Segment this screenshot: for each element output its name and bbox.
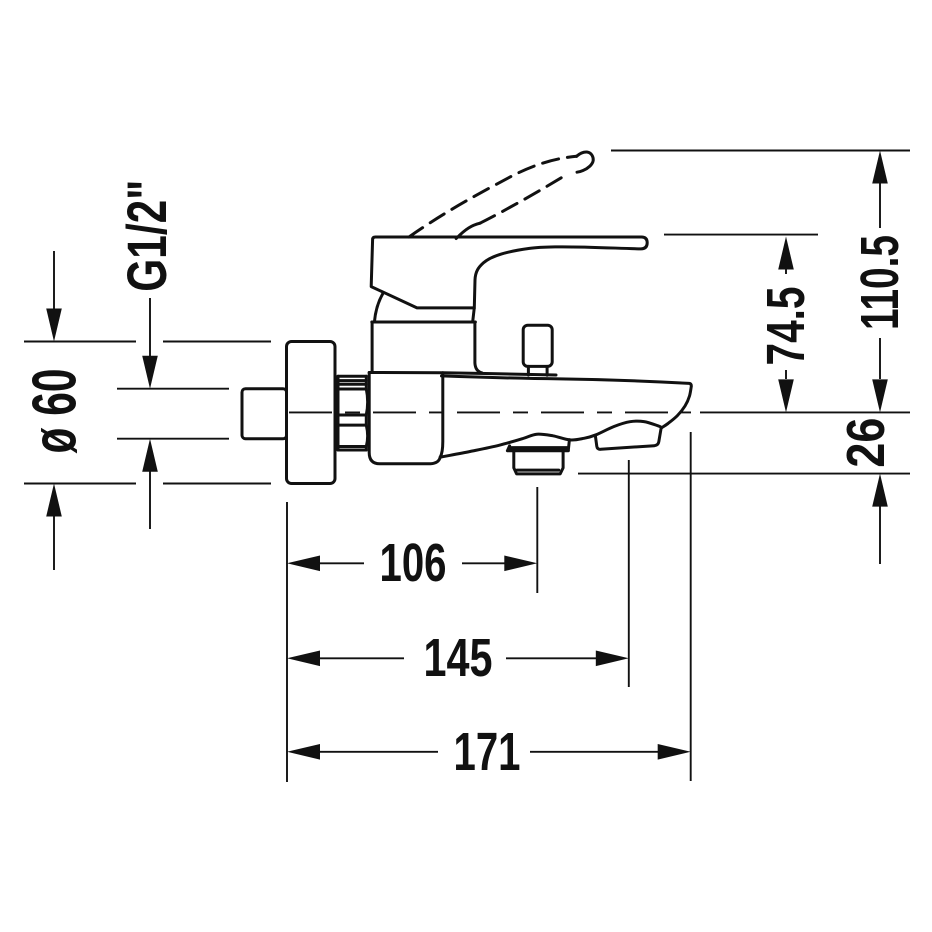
- spout tip extension line: [690, 432, 692, 781]
- handle lever (closed position): [371, 237, 647, 308]
- svg-text:171: 171: [454, 722, 521, 782]
- cartridge section: [372, 321, 476, 324]
- cartridge dome arc: [374, 294, 382, 322]
- reference line spout bottom (26): [578, 473, 910, 475]
- svg-text:G1/2": G1/2": [115, 180, 178, 292]
- svg-text:74.5: 74.5: [756, 287, 816, 366]
- 171 dimension: [287, 744, 320, 760]
- fitting bottom extension line: [117, 438, 229, 440]
- lever raised tip cap: [577, 152, 594, 172]
- wall plane extension line: [286, 502, 288, 782]
- svg-text:26: 26: [836, 418, 896, 468]
- lever raised base curve: [456, 223, 480, 238]
- aerator extension line: [536, 487, 538, 593]
- aerator lip: [507, 446, 568, 451]
- 26 dimension: [872, 474, 888, 507]
- 74.5 dimension: [778, 237, 794, 270]
- flange top extension line: [24, 341, 271, 343]
- reference line top (110.5): [611, 150, 910, 152]
- union nut: [338, 376, 368, 450]
- G1/2 dimension arrows: [149, 298, 151, 356]
- aerator inner line: [517, 469, 559, 472]
- lever in raised position (dashed) upper line: [409, 156, 577, 237]
- lever raised lower line (dashed): [480, 175, 566, 224]
- svg-text:106: 106: [380, 533, 447, 593]
- diverter knob stem: [528, 366, 547, 375]
- wall flange (escutcheon): [287, 342, 336, 484]
- dia 60 dimension arrows: [53, 251, 55, 310]
- wall supply square fitting: [242, 389, 287, 439]
- aerator right connector: [568, 440, 569, 451]
- reference line handle top (74.5): [664, 234, 818, 236]
- svg-text:ø 60: ø 60: [21, 369, 90, 454]
- diverter knob: [523, 325, 552, 366]
- spout underside wave: [440, 421, 662, 457]
- body deck line: [369, 373, 556, 376]
- body right edge: [440, 373, 443, 457]
- svg-text:110.5: 110.5: [850, 235, 910, 330]
- flange bottom extension line: [24, 483, 271, 485]
- neck to cartridge connector: [473, 309, 474, 321]
- reference centerline extension right: [700, 411, 910, 413]
- 110.5 dimension: [872, 151, 888, 184]
- hand shower outlet cover: [595, 428, 661, 449]
- outlet extension line: [628, 460, 630, 687]
- body left edge and bottom: [369, 373, 440, 464]
- spout top edge: [442, 376, 692, 428]
- centerline (dash-dot): [289, 411, 691, 413]
- 145 dimension: [287, 651, 320, 667]
- 106 dimension: [287, 556, 320, 572]
- svg-text:145: 145: [424, 628, 493, 688]
- fitting top extension line: [117, 388, 229, 390]
- aerator body: [514, 451, 563, 474]
